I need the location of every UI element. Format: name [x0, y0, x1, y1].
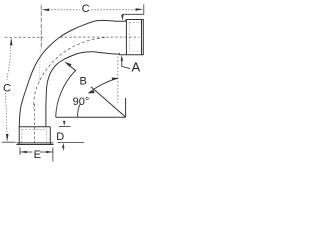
B arrowhead (points to inner arc) [64, 62, 71, 67]
vertex: dotted vertical extension below right hub [117, 57, 119, 104]
left C bottom extension line [2, 141, 16, 143]
top C dimension: left extension line [40, 5, 42, 49]
B dimension diagonal line (outer segment) [67, 63, 77, 70]
top C left arrow [42, 9, 50, 12]
right port tube wall step at hub [125, 20, 127, 22]
outer wall arc of elbow [19, 20, 126, 127]
top C right arrow [136, 8, 144, 11]
left C top arrow [10, 38, 13, 46]
D bottom arrow (up onto extension) [62, 148, 64, 151]
svg-text:C: C [3, 82, 11, 94]
dashed horizontal axis of right port [5, 36, 43, 38]
svg-text:90°: 90° [73, 96, 90, 108]
svg-text:B: B [80, 76, 87, 88]
dashed centerline arc of bend [34, 37, 105, 108]
A dimension top arrow (down onto tube wall) [121, 14, 123, 15]
svg-text:C: C [82, 3, 90, 15]
D dimension: upper extension line (hub top plane) [59, 126, 71, 128]
bottom hub: socket bore hidden lines [22, 130, 47, 143]
top C dimension: right extension line [143, 4, 145, 14]
A dimension horizontal line at top of hub [122, 13, 143, 15]
bend radius arc (r=70 about vertex, from leg up to B label) [56, 71, 76, 118]
E dimension line [20, 151, 32, 153]
90-degree arc arrowhead at vertical extension [112, 78, 119, 81]
bottom hub: face (double line) [16, 144, 53, 146]
bottom hub: top edge [19, 126, 50, 128]
E left arrow [20, 151, 27, 154]
90-degree angle arc: lower segment [78, 104, 81, 117]
svg-text:D: D [56, 131, 64, 143]
inner wall arc of elbow [46, 52, 120, 127]
E dimension: right extension line [52, 147, 54, 161]
right hub: bottom edge [119, 54, 143, 56]
left C dimension line (dotted, slightly drifting) [7, 38, 11, 80]
vertex: solid vertical leg [125, 98, 127, 117]
E right arrow [46, 151, 53, 154]
svg-text:A: A [132, 59, 141, 74]
dashed vertical axis of bottom port [33, 104, 35, 144]
left C bottom arrow [6, 134, 9, 142]
90-degree arc arrowhead near diagonal [88, 90, 95, 93]
A leader: arrow up onto hub bottom, stem and jog to label [122, 57, 130, 69]
top C dimension line (dotted) [48, 9, 80, 11]
right hub: socket bore hidden lines [129, 22, 141, 51]
E dimension: left extension line [19, 147, 21, 155]
bottom hub: left edge [18, 127, 20, 145]
right hub: face (double line) [142, 20, 144, 55]
90-degree angle arc: upper segment [89, 78, 119, 93]
vertex: horizontal leg [56, 116, 126, 118]
bottom hub: right edge [49, 127, 51, 145]
svg-text:E: E [34, 149, 41, 161]
D dimension: lower extension line (face plane) [57, 141, 84, 143]
D top arrow (down onto extension) [63, 120, 65, 123]
right hub: top edge [126, 19, 144, 21]
B dimension diagonal line (vertex segment) [91, 87, 126, 117]
right hub: left edge [125, 20, 127, 55]
